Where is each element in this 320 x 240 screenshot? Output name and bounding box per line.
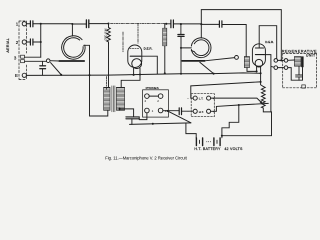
svg-text:D.E.R.: D.E.R. <box>144 47 153 51</box>
LT terminals <box>193 96 197 100</box>
LT negative feed line <box>191 82 261 86</box>
svg-text:2: 2 <box>16 40 19 45</box>
svg-text:3: 3 <box>14 55 17 60</box>
HT positive wire <box>211 103 269 111</box>
earth bus <box>26 73 260 75</box>
valve V2 grid feed <box>258 26 260 48</box>
svg-text:1: 1 <box>16 22 19 27</box>
coil L2 lead <box>180 47 182 49</box>
capacitor (grid V2) <box>219 21 222 27</box>
wire (top link to vertical link) <box>25 56 41 58</box>
wire (top bracket to regenerative unit) <box>201 10 281 60</box>
coil L1 <box>62 36 85 59</box>
wire (battery positive staircase) <box>222 105 239 138</box>
wire (anode V1 down to bus) <box>140 56 157 74</box>
wire (bottom link to switch pivot) <box>25 60 47 62</box>
wire (secondary bottom) <box>119 109 121 111</box>
wire (bus to transformer primary) <box>90 75 108 116</box>
svg-text:−: − <box>187 110 189 114</box>
wire <box>26 41 30 43</box>
telephone transformer T1 primary <box>104 87 110 110</box>
wire <box>89 23 108 25</box>
phone condenser <box>126 117 139 119</box>
svg-text:L.T.: L.T. <box>199 97 204 101</box>
svg-text:Fig. 11.—Marconiphone V. 2 Rec: Fig. 11.—Marconiphone V. 2 Receiver Circ… <box>105 156 187 161</box>
grid leak resistor R1 <box>107 24 111 44</box>
svg-text:H.T. BATTERY 42 VOLTS: H.T. BATTERY 42 VOLTS <box>194 147 243 151</box>
T1 secondary <box>116 87 124 110</box>
aerial terminal panel dashed box <box>19 21 27 80</box>
dashed grid lead run <box>107 24 166 91</box>
node <box>40 41 42 43</box>
slider end terminal <box>235 56 239 60</box>
valve V2 grid bar <box>255 47 263 49</box>
rheostat wiper arrow <box>211 98 261 102</box>
svg-text:GRID LEAK: GRID LEAK <box>104 28 107 41</box>
svg-text:+: + <box>213 110 215 114</box>
battery terminal block (dashed) <box>191 94 214 117</box>
svg-text:PHONES: PHONES <box>146 86 159 90</box>
regeneration coil <box>294 57 301 67</box>
HF transformer secondary (hatched) <box>244 57 249 68</box>
wire (phones to battery line) <box>139 113 147 120</box>
wire (filament right leg to transformer) <box>121 68 140 87</box>
wire (terminal loop) <box>288 67 303 80</box>
HT battery cells <box>196 138 220 146</box>
wire (V2 filament left leg) <box>256 67 258 72</box>
node <box>88 74 90 76</box>
slider bar L2 <box>182 60 205 62</box>
node <box>200 23 202 25</box>
capacitor C2 <box>30 39 33 45</box>
valve V1 grid (dashed) <box>130 48 140 50</box>
coil L2 top lead <box>200 24 202 38</box>
wire <box>33 23 72 25</box>
wire (to HF transformer secondary) <box>222 25 246 57</box>
capacitor (tuning, vertical) <box>178 24 184 36</box>
terminal E <box>22 73 26 77</box>
wire <box>26 23 30 25</box>
capacitor (across phones) <box>179 108 181 115</box>
anode resistance (hatched) <box>165 23 167 25</box>
wire <box>33 41 40 43</box>
terminal 2 <box>22 40 26 44</box>
node <box>60 74 62 76</box>
capacitor (coupling) <box>171 20 174 28</box>
capacitor C1 <box>30 21 33 27</box>
svg-text:+: + <box>213 97 215 101</box>
phone terminals <box>145 94 150 99</box>
node (coil tap) <box>71 23 73 25</box>
node (junction of link) <box>40 23 42 25</box>
wire (filament left leg) <box>133 68 135 75</box>
wire (down to bus) <box>180 37 182 74</box>
wire (secondary to filament line) <box>247 68 257 72</box>
wire (diagonal to battery negative) <box>168 111 191 123</box>
wire <box>166 23 170 25</box>
wire <box>174 23 219 25</box>
switch pivot <box>46 59 50 63</box>
valve V1 envelope <box>128 45 142 68</box>
svg-text:2: 2 <box>157 99 159 103</box>
wire (V2 filament right leg to rheostat) <box>261 67 264 87</box>
wire (vertical link) <box>40 24 42 57</box>
wire (phones to HT-) <box>163 110 179 112</box>
coil L1 (variometer) top lead <box>71 24 73 36</box>
svg-text:1: 1 <box>152 109 154 113</box>
battery feed line <box>130 123 191 125</box>
PHONES box <box>143 90 169 117</box>
filament rheostat <box>222 87 272 136</box>
capacitor (aerial shunt) <box>40 61 46 75</box>
terminal 3 (two link squares) <box>21 55 25 58</box>
wire (terminal to coil) <box>288 59 295 61</box>
core bar <box>301 56 303 67</box>
wire (slider arm to bus) <box>200 62 214 73</box>
T1 core <box>112 86 115 112</box>
HT terminals <box>193 109 197 113</box>
svg-text:AERIAL: AERIAL <box>6 38 10 53</box>
valve V1 filament <box>132 59 142 69</box>
valve V2 anode <box>255 54 264 56</box>
wire (grid leak to transformer) <box>108 44 110 88</box>
svg-text:−: − <box>187 96 189 100</box>
capacitor (aerial series) <box>86 20 88 28</box>
REGENERATIVE UNIT box (dashed) <box>283 53 317 87</box>
svg-text:2: 2 <box>145 99 147 103</box>
slider bar L1 <box>50 60 59 62</box>
wire (staircase to battery) <box>186 123 196 138</box>
svg-text:E: E <box>15 73 18 78</box>
switch blade <box>51 63 62 75</box>
valve V2 envelope <box>252 44 265 66</box>
terminal 1 <box>22 22 26 26</box>
valve V2 filament <box>255 59 263 67</box>
wire <box>72 23 86 25</box>
wire (V2 anode out) <box>264 55 274 112</box>
wire (coil L1 to bus) <box>84 45 90 75</box>
node (grid leak tap) <box>107 23 109 25</box>
svg-text:UNIT: UNIT <box>306 54 316 58</box>
wire (terminal row links) <box>278 60 285 67</box>
corner terminal square <box>302 85 306 88</box>
node <box>180 23 182 25</box>
valve V1 anode <box>130 55 140 57</box>
capacitor (regen) <box>296 66 303 80</box>
coil L2 <box>191 38 211 58</box>
svg-text:H.T.: H.T. <box>199 110 204 114</box>
unit plug terminals <box>274 59 278 63</box>
grid bridge to regenerative terminal <box>259 26 277 59</box>
svg-text:D.E.R.: D.E.R. <box>265 40 274 44</box>
